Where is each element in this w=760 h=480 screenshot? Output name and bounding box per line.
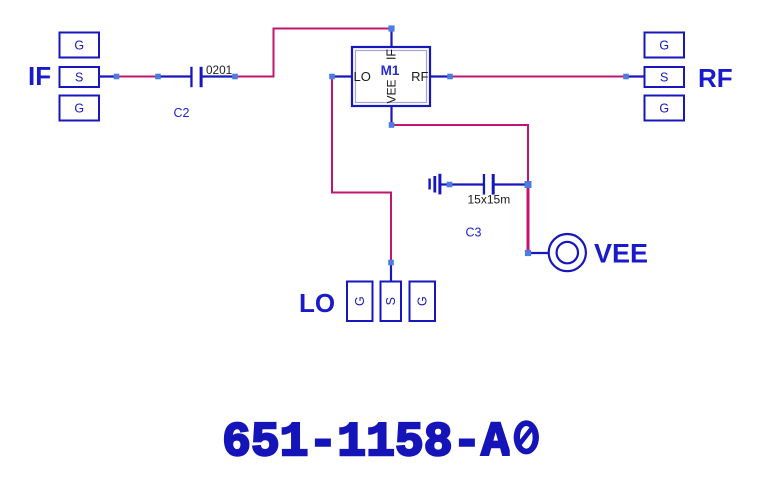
junction square at M1 IF net corner: [388, 25, 394, 31]
reference label M1: [381, 63, 400, 78]
capacitor C2 left pin: [158, 75, 191, 77]
reference label C3: [466, 226, 482, 240]
junction square at VEE port pin: [525, 250, 531, 256]
svg-text:IF: IF: [28, 61, 51, 91]
pin label LO (M1): [354, 69, 371, 84]
svg-text:M1: M1: [381, 63, 400, 78]
port label RF: [698, 63, 733, 93]
capacitor C2 plates: [190, 67, 202, 87]
capacitor C2 right pin: [202, 75, 235, 77]
port IF pad G2: [60, 96, 100, 121]
pin stub RF port S: [626, 75, 645, 77]
svg-text:IF: IF: [385, 49, 399, 60]
junction square at M1 RF pin: [447, 74, 453, 80]
svg-text:LO: LO: [299, 288, 335, 318]
svg-text:G: G: [659, 102, 669, 116]
pin stub VEE port: [528, 252, 549, 254]
junction square at LO port S pin: [388, 260, 394, 266]
junction square at C3 left terminal: [447, 182, 453, 188]
junction square at M1 LO pin: [329, 74, 335, 80]
svg-text:S: S: [384, 297, 398, 305]
capacitor C3 left pin: [450, 183, 484, 185]
junction square at RF port S pin: [623, 74, 629, 80]
svg-text:C3: C3: [466, 226, 482, 240]
VEE supply port symbol (double circle): [549, 234, 586, 271]
capacitor C3 right pin: [494, 183, 528, 185]
junction square at C2 left terminal: [155, 74, 161, 80]
port RF pad G1: [645, 33, 685, 58]
svg-text:15x15m: 15x15m: [468, 193, 511, 207]
svg-text:G: G: [353, 296, 367, 306]
svg-text:G: G: [416, 296, 430, 306]
pin label RF (M1): [411, 69, 428, 84]
svg-text:VEE: VEE: [385, 79, 399, 103]
svg-text:G: G: [74, 102, 84, 116]
pin stub M1 RF (right): [430, 75, 450, 77]
svg-text:VEE: VEE: [594, 238, 648, 268]
svg-text:G: G: [74, 39, 84, 53]
pin stub M1 LO (left): [332, 75, 352, 77]
value label 15x15m (C3): [468, 193, 511, 207]
port LO pad G2: [410, 282, 436, 322]
svg-text:C2: C2: [174, 106, 190, 120]
junction square at C2 right terminal: [232, 74, 238, 80]
slashed zero of title (custom drawn): [510, 415, 541, 458]
svg-text:RF: RF: [411, 69, 428, 84]
junction square at IF S pin: [114, 74, 120, 80]
pin stub LO port S: [390, 263, 392, 282]
pin label VEE (M1, rotated): [385, 79, 399, 103]
reference label C2: [174, 106, 190, 120]
port IF pad S: [60, 67, 100, 87]
wire M1 RF pin to RF port (pink net): [450, 76, 626, 78]
port RF pad G2: [645, 96, 685, 121]
port IF pad G1: [60, 33, 100, 58]
port RF pad S: [645, 67, 685, 87]
title text 651-1158-A0: [222, 416, 539, 470]
capacitor C3 plates: [483, 174, 495, 195]
svg-text:RF: RF: [698, 63, 733, 93]
junction square at C3 right terminal / net junction: [525, 181, 532, 188]
wire C2 to M1 IF pin (pink net): [235, 29, 392, 77]
junction square at M1 VEE pin: [389, 122, 395, 128]
ground symbol (C3 left): [428, 174, 449, 195]
pin stub IF port S: [99, 75, 117, 77]
svg-text:LO: LO: [354, 69, 371, 84]
svg-text:0201: 0201: [206, 63, 232, 77]
svg-text:G: G: [659, 39, 669, 53]
pin stub M1 IF (top): [390, 29, 392, 48]
port label IF: [28, 61, 51, 91]
pin label IF (M1, rotated): [385, 49, 399, 60]
svg-text:S: S: [660, 71, 668, 85]
wire IF port S to C2 (pink net): [117, 76, 159, 78]
port label VEE: [594, 238, 648, 268]
wire M1 VEE pin to C3 junction (pink net): [392, 125, 529, 185]
mixer M1 body: [352, 47, 430, 106]
wire C3 junction to VEE port (pink net): [527, 185, 530, 254]
wire M1 LO pin to LO port (pink net): [332, 77, 391, 263]
svg-text:651-1158-A0: 651-1158-A0: [222, 416, 539, 470]
port label LO: [299, 288, 335, 318]
pin stub M1 VEE (bottom): [390, 106, 392, 125]
port LO pad G1: [347, 282, 373, 322]
svg-text:S: S: [75, 71, 83, 85]
port LO pad S: [381, 282, 402, 322]
value label 0201 (C2): [206, 63, 232, 77]
